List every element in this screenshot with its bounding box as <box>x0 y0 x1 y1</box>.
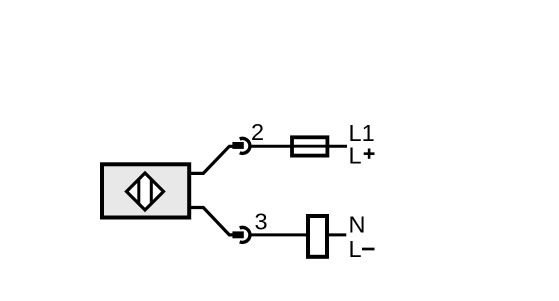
fuse through-wire <box>290 145 329 148</box>
svg-text:3: 3 <box>255 208 268 234</box>
connector socket 3 (arc) <box>240 227 250 242</box>
sensor symbol: right bar <box>150 180 153 204</box>
wire: pin 3 branch (stub + diagonal) <box>191 208 234 235</box>
sensor symbol: left bar <box>137 180 140 204</box>
sensor body (gray box) <box>102 164 189 217</box>
svg-text:L: L <box>349 143 362 169</box>
svg-text:N: N <box>349 211 366 237</box>
wire: pin 2 branch (stub + diagonal) <box>191 146 234 173</box>
connector pin 2 (plug contact) <box>232 142 243 149</box>
fuse F1 <box>292 137 327 155</box>
wire: socket 2 to L1/L+ <box>251 145 348 148</box>
wire: socket 3 to N/L- <box>251 233 347 236</box>
load E1 <box>308 216 327 257</box>
sensor symbol: diamond <box>127 173 164 210</box>
svg-text:L: L <box>349 236 362 262</box>
connector pin 3 (plug contact) <box>232 231 243 238</box>
connector socket 2 (arc) <box>240 138 250 153</box>
svg-text:2: 2 <box>251 119 264 145</box>
